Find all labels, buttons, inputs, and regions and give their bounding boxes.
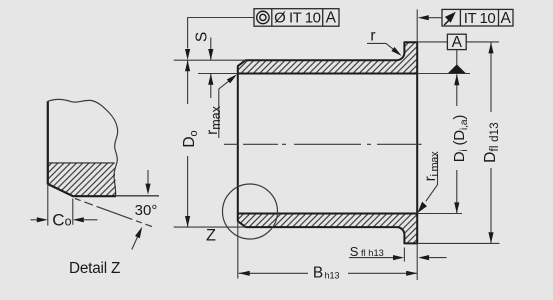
dim B [239, 265, 418, 282]
extension line right flange face up [416, 9, 418, 42]
leader r [367, 28, 402, 56]
svg-text:A: A [326, 10, 337, 27]
svg-text:h13: h13 [325, 270, 340, 280]
extension line flange left face down [403, 248, 405, 262]
detail Z: hatched band [48, 163, 116, 196]
detail Z: angle arrow down [145, 170, 150, 195]
detail Z: layer divider line [48, 162, 115, 164]
datum A symbol [447, 34, 466, 73]
svg-text:A: A [501, 10, 512, 27]
extension line top bore surface [198, 73, 238, 75]
detail circle Z [206, 184, 277, 245]
extension line bore bottom right [417, 213, 462, 215]
extension line bore top right [417, 73, 470, 75]
right flange face edge through bore [416, 74, 418, 214]
detail Z: outer surface extension [116, 195, 159, 197]
leader from runout frame [418, 15, 442, 20]
dim D_i [451, 74, 470, 213]
detail Z: end face edge [47, 101, 49, 184]
leader r_i max [418, 151, 442, 213]
dim D_o [181, 60, 200, 227]
detail Z: dim C_o [31, 184, 98, 230]
dim S [194, 32, 214, 98]
dim S_fl [349, 244, 447, 260]
extension line flange top right [417, 41, 499, 43]
svg-text:r: r [370, 28, 375, 45]
extension line flange bottom right [417, 242, 499, 244]
feature control frame concentricity [254, 9, 339, 27]
leader from concentricity frame [185, 18, 254, 61]
extension line right flange face down [416, 243, 418, 280]
detail Z: 30 deg dashed line [75, 199, 152, 227]
svg-text:Ø IT 10: Ø IT 10 [274, 10, 320, 27]
svg-text:S: S [194, 32, 211, 42]
svg-text:30°: 30° [135, 202, 158, 219]
svg-text:Detail Z: Detail Z [69, 260, 120, 277]
extension line bottom outer surface [174, 226, 246, 228]
svg-text:IT 10: IT 10 [464, 10, 496, 27]
svg-text:A: A [452, 34, 463, 51]
left end face edge through bore [237, 74, 239, 214]
feature control frame circular runout [442, 9, 513, 27]
detail Z: angle arrow up [132, 227, 142, 250]
svg-text:B: B [313, 265, 323, 282]
center line [224, 143, 422, 145]
svg-text:Z: Z [206, 227, 216, 245]
extension line top outer surface [174, 59, 246, 61]
dim D_fl [482, 42, 501, 243]
leader r_max [204, 74, 237, 138]
detail Z: break line [48, 99, 118, 196]
extension line left end face down [237, 221, 239, 279]
bushing lower wall and flange section [238, 214, 417, 244]
detail Z: chamfer and outer surface edge [48, 184, 116, 196]
bushing upper wall and flange section [238, 42, 417, 73]
